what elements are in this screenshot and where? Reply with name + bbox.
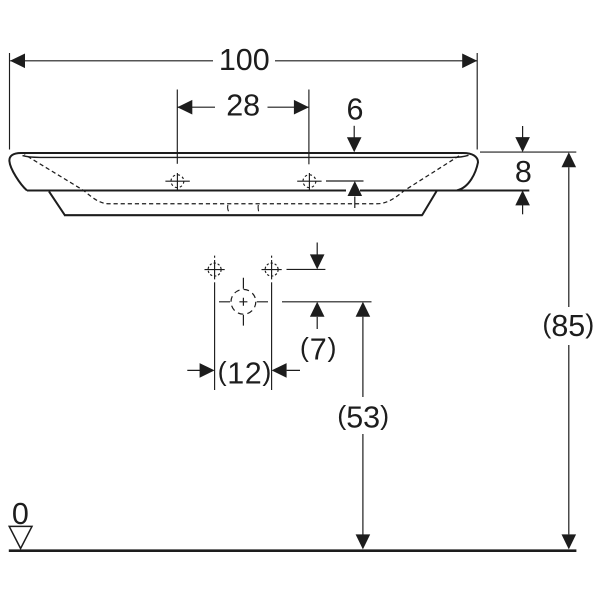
svg-text:6: 6 xyxy=(347,93,364,127)
svg-text:(85): (85) xyxy=(542,309,594,343)
svg-text:(12): (12) xyxy=(218,356,272,390)
svg-text:28: 28 xyxy=(226,89,260,123)
svg-text:100: 100 xyxy=(219,43,270,77)
svg-text:8: 8 xyxy=(515,155,532,189)
svg-text:(7): (7) xyxy=(300,333,337,367)
svg-text:(53): (53) xyxy=(337,401,389,435)
svg-text:0: 0 xyxy=(12,497,29,531)
